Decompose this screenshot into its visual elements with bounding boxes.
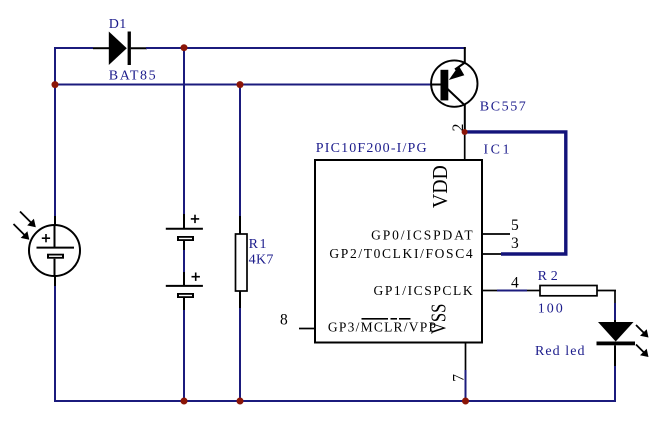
- node 2 thick wire to pin 3: [465, 132, 566, 254]
- pin 8 stub: [299, 328, 315, 330]
- svg-text:8: 8: [280, 311, 288, 328]
- wire battery vertical: [183, 47, 185, 401]
- wire left vertical: [54, 47, 56, 402]
- wire bottom rail: [55, 400, 616, 402]
- junction dot bottom battery: [181, 398, 188, 405]
- svg-text:D1: D1: [109, 17, 126, 32]
- svg-text:VDD: VDD: [428, 165, 452, 208]
- junction dot second rail R1: [237, 81, 244, 88]
- svg-text:Red led: Red led: [535, 344, 585, 359]
- diode D1: [109, 32, 131, 66]
- solar cell (photo battery): [29, 216, 80, 286]
- junction dot bottom R1: [237, 398, 244, 405]
- transistor Q1 BC557: [431, 60, 477, 132]
- wire R1 vertical: [239, 85, 241, 402]
- resistor R1: [236, 216, 248, 308]
- svg-text:BAT85: BAT85: [109, 69, 156, 84]
- svg-text:BC557: BC557: [480, 100, 526, 115]
- LED light arrow 2: [636, 345, 649, 358]
- battery cell 1: [166, 214, 203, 250]
- svg-text:5: 5: [511, 217, 519, 234]
- pin 3 stub: [482, 253, 501, 255]
- wire LED to bottom rail: [614, 366, 616, 402]
- svg-text:PIC10F200-I/PG: PIC10F200-I/PG: [316, 141, 427, 156]
- svg-text:R1: R1: [249, 237, 267, 252]
- LED light arrow 1: [636, 325, 649, 338]
- svg-text:3: 3: [511, 235, 519, 252]
- svg-text:7: 7: [450, 374, 467, 382]
- IC U1 box: [315, 160, 482, 343]
- pin name GP3/MCLR/VPP: [328, 319, 436, 335]
- wire top rail left segment: [55, 47, 109, 49]
- wire top rail right segment: [131, 47, 466, 64]
- battery cell 2: [166, 272, 203, 310]
- junction dot bottom pin 7: [462, 398, 469, 405]
- svg-text:IC1: IC1: [484, 143, 510, 158]
- pin 2 lead into IC: [464, 132, 466, 160]
- resistor R2: [540, 286, 616, 304]
- pin 5 stub: [482, 233, 510, 235]
- light arrow 1 into solar cell: [20, 212, 36, 228]
- svg-text:100: 100: [538, 302, 563, 317]
- pin 4 wire to R2: [482, 290, 540, 292]
- LED D2 red led: [597, 322, 636, 366]
- svg-text:GP3/MCLR/VPP: GP3/MCLR/VPP: [328, 320, 436, 335]
- svg-text:4K7: 4K7: [249, 253, 274, 268]
- light arrow 2 into solar cell: [14, 224, 30, 240]
- svg-text:4: 4: [511, 275, 519, 292]
- junction dot second rail left: [52, 81, 59, 88]
- wire second rail (base rail): [55, 84, 432, 86]
- pin 7 wire to ground rail: [465, 343, 467, 402]
- junction dot node 2: [462, 129, 468, 135]
- junction dot top rail battery: [181, 44, 188, 51]
- wire R2 to LED: [614, 303, 616, 323]
